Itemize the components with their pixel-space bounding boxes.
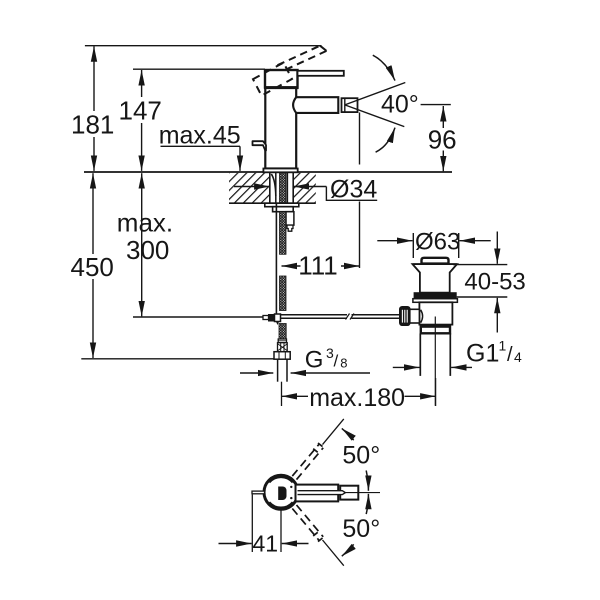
svg-text:1: 1 bbox=[499, 338, 507, 354]
top view: 50 deg upper extension line bbox=[323, 419, 344, 445]
braided hose segment below locknut bbox=[280, 212, 287, 255]
faucet centreline extension down to max.180 bbox=[281, 382, 283, 406]
40 degree upper swivel line bbox=[345, 83, 406, 105]
shank tube end steps bbox=[287, 225, 293, 231]
svg-text:300: 300 bbox=[126, 235, 169, 265]
40 deg leader line to 96 bbox=[421, 104, 451, 106]
svg-text:181: 181 bbox=[71, 110, 114, 140]
faucet body bbox=[265, 88, 296, 169]
svg-text:96: 96 bbox=[428, 124, 457, 154]
dimension diameter 34 arrows at deck hole bbox=[234, 186, 270, 188]
top view: pop-up rod pointing left bbox=[252, 491, 265, 494]
drain dome cap bbox=[422, 258, 449, 264]
svg-text:Ø63: Ø63 bbox=[415, 229, 460, 256]
top view: upper 50 deg arc with arrows bbox=[342, 428, 354, 440]
shank tube below locknut bbox=[286, 212, 294, 225]
top view: faucet body circle bbox=[264, 475, 298, 509]
drain dome top surface line bbox=[413, 263, 458, 265]
dimension max.180 arrows bbox=[282, 395, 308, 397]
svg-text:41: 41 bbox=[253, 531, 279, 557]
top view: spout body bbox=[296, 485, 339, 502]
svg-text:40-53: 40-53 bbox=[464, 269, 525, 296]
dimension 181 vertical line with arrows bbox=[93, 46, 95, 111]
max.45 arrow down to deck bbox=[239, 146, 241, 171]
svg-text:/: / bbox=[334, 352, 339, 371]
dimension 40-53 vertical line with outside arrows bbox=[496, 232, 498, 264]
braided hose segment below 111 label bbox=[280, 276, 287, 311]
dimension diameter 63 arrows bbox=[377, 240, 412, 242]
pop-up rod below deck bbox=[275, 203, 277, 313]
dimension 147 vertical line with arrows bbox=[141, 70, 143, 97]
svg-text:G1: G1 bbox=[466, 340, 499, 368]
top view: cartridge cap (dark D shape) bbox=[278, 487, 286, 501]
aerator at spout tip bbox=[342, 98, 358, 112]
svg-text:50°: 50° bbox=[342, 515, 380, 543]
extension line handle top (147 reference) bbox=[133, 68, 265, 70]
drain mounting flange (dark ring) bbox=[414, 293, 456, 299]
drain centreline bbox=[434, 317, 436, 406]
swung handle base (dashed rotated rectangle) bbox=[253, 63, 292, 96]
svg-text:111: 111 bbox=[298, 251, 338, 281]
dimension 41 arrows bbox=[219, 543, 252, 545]
drain dome flange outline bbox=[413, 264, 458, 293]
swung lever arm (dashed alternate position) bbox=[278, 46, 327, 71]
deck hole right edge bbox=[292, 172, 294, 203]
pop-up linkage clamp left block bbox=[263, 316, 269, 320]
dimension max.300 vertical line with arrows bbox=[141, 173, 143, 209]
plug seat fillet arc bbox=[421, 310, 423, 323]
svg-text:/: / bbox=[507, 344, 513, 366]
deck hole left edge bbox=[269, 172, 271, 203]
extension line at hose end level (450 bottom) bbox=[81, 358, 273, 360]
curved arrow upper (spout swivel) bbox=[373, 55, 395, 80]
clamp screw tip below bbox=[276, 322, 279, 326]
spout bbox=[293, 97, 338, 113]
hose end tube bbox=[277, 359, 279, 382]
pop-up rod curve inside hole bbox=[271, 174, 276, 196]
40 degree lower swivel line bbox=[345, 105, 405, 127]
top view: swung spout lower (dashed 50 deg) bbox=[292, 505, 323, 540]
deck bottom line bbox=[229, 202, 316, 204]
lever arm (horizontal position) bbox=[298, 71, 344, 76]
dimension 96 vertical line with arrows bbox=[442, 106, 444, 128]
svg-text:4: 4 bbox=[514, 349, 522, 365]
diameter 34 leader jog bbox=[326, 187, 377, 201]
washer under deck bbox=[265, 203, 299, 207]
top view: 50 deg lower extension line bbox=[323, 540, 344, 566]
extension line at pop-up rod level (max.300 bottom) bbox=[133, 316, 267, 318]
dimension 450 vertical line with arrows bbox=[92, 173, 94, 254]
shank tube left line bbox=[275, 173, 277, 203]
dimension G3/8 arrows bbox=[240, 372, 273, 374]
dimension diameter 63 extension lines bbox=[412, 233, 414, 258]
svg-text:8: 8 bbox=[340, 356, 347, 371]
drain gasket ring below flange bbox=[413, 299, 458, 303]
hose threaded end bbox=[278, 343, 288, 352]
svg-text:147: 147 bbox=[119, 96, 162, 126]
pop-up linkage clamp square bbox=[275, 314, 281, 322]
top view: swung aerator upper tick bbox=[318, 443, 323, 447]
top view: aerator bbox=[340, 486, 358, 500]
top view: screw dots bbox=[290, 486, 292, 488]
knurled adjuster knob bbox=[400, 307, 410, 325]
pop-up linkage clamp dark block bbox=[269, 315, 275, 322]
shank tube right line bbox=[286, 173, 288, 203]
40-53 upper extension line (dome top level) bbox=[453, 264, 507, 266]
top view: lower 50 deg arc with arrows bbox=[342, 544, 354, 556]
knob stem bbox=[410, 309, 420, 323]
aerator inner line bbox=[344, 98, 346, 112]
handle base / cartridge housing bbox=[265, 70, 298, 88]
extension line from aerator tip down (111 reference) bbox=[359, 113, 361, 165]
horizontal pop-up rod to drain (two lines with break) bbox=[281, 314, 348, 316]
dimension G1 1/4 arrows bbox=[393, 366, 420, 368]
braided hose segment below junction bbox=[279, 324, 286, 340]
dimension 111 leader arrows bbox=[282, 265, 301, 267]
faucet base plate on deck bbox=[263, 169, 297, 173]
locknut bbox=[273, 207, 294, 212]
curved arrow lower (spout swivel) bbox=[376, 128, 395, 153]
top view: extension line from rod end bbox=[251, 495, 253, 553]
top view: thicker ring arcs top and bottom bbox=[269, 477, 293, 483]
svg-text:max.180: max.180 bbox=[309, 384, 405, 412]
deck hatching left block bbox=[229, 173, 270, 203]
svg-text:50°: 50° bbox=[342, 442, 380, 470]
pop-up rod knob on body left bbox=[253, 141, 267, 150]
svg-text:G: G bbox=[305, 347, 324, 374]
deck hatching right block bbox=[293, 173, 316, 203]
svg-text:max.45: max.45 bbox=[159, 122, 241, 150]
threaded shank inside deck hole (braided hose) bbox=[280, 173, 287, 203]
svg-text:450: 450 bbox=[71, 252, 114, 282]
svg-text:max.: max. bbox=[117, 208, 173, 238]
rod break marks bbox=[346, 314, 350, 320]
top view: swung spout upper (dashed 50 deg) bbox=[292, 444, 323, 479]
hose ferrule bbox=[278, 339, 286, 343]
extension line top (181 reference, lever tip level) bbox=[85, 45, 322, 47]
drain tailpipe G1 1/4 bbox=[419, 333, 421, 376]
drain valve body bbox=[419, 302, 452, 324]
top view: swung aerator lower tick bbox=[318, 538, 323, 542]
top view: spout centreline bbox=[346, 492, 381, 494]
svg-text:Ø34: Ø34 bbox=[330, 176, 377, 204]
deck top surface line bbox=[84, 171, 452, 173]
top view: centreline down from circle bbox=[280, 510, 282, 553]
top view: spout inner tube bar bbox=[298, 491, 346, 495]
drain ring nut bbox=[421, 327, 450, 334]
drain centreline extension at max.180 bbox=[435, 378, 437, 406]
hose connection nut G3/8 bbox=[274, 352, 290, 360]
svg-text:40°: 40° bbox=[381, 91, 419, 119]
40-53 lower extension line (flange top level) bbox=[457, 296, 508, 298]
